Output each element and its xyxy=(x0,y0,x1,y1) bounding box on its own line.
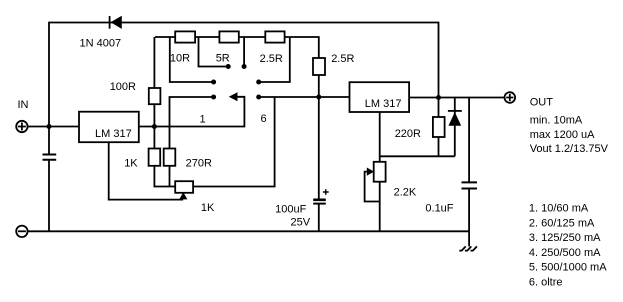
svg-text:IN: IN xyxy=(18,99,29,111)
svg-text:2.5R: 2.5R xyxy=(260,53,283,65)
svg-text:100R: 100R xyxy=(110,81,136,93)
svg-text:10R: 10R xyxy=(170,52,190,64)
svg-text:5. 500/1000 mA: 5. 500/1000 mA xyxy=(529,262,607,274)
svg-text:LM 317: LM 317 xyxy=(365,98,402,110)
svg-text:Vout 1.2/13.75V: Vout 1.2/13.75V xyxy=(530,143,609,155)
svg-text:1K: 1K xyxy=(201,202,215,214)
svg-text:1. 10/60 mA: 1. 10/60 mA xyxy=(529,203,589,215)
svg-text:0.1uF: 0.1uF xyxy=(425,203,453,215)
svg-text:2.2K: 2.2K xyxy=(394,187,417,199)
svg-text:6: 6 xyxy=(261,113,267,125)
svg-text:2. 60/125 mA: 2. 60/125 mA xyxy=(529,217,595,229)
svg-text:25V: 25V xyxy=(291,217,311,229)
svg-text:3. 125/250 mA: 3. 125/250 mA xyxy=(529,232,601,244)
svg-text:220R: 220R xyxy=(395,128,421,140)
svg-text:5R: 5R xyxy=(216,52,230,64)
svg-text:1: 1 xyxy=(200,114,206,126)
svg-text:6. oltre: 6. oltre xyxy=(529,277,563,289)
svg-text:min. 10mA: min. 10mA xyxy=(530,115,583,127)
svg-text:1N 4007: 1N 4007 xyxy=(80,37,122,49)
svg-text:4. 250/500 mA: 4. 250/500 mA xyxy=(529,247,601,259)
svg-text:max 1200 uA: max 1200 uA xyxy=(530,129,595,141)
svg-text:100uF: 100uF xyxy=(275,204,306,216)
svg-text:1K: 1K xyxy=(124,157,138,169)
svg-text:LM 317: LM 317 xyxy=(95,128,132,140)
svg-text:OUT: OUT xyxy=(530,97,554,109)
svg-text:270R: 270R xyxy=(186,157,212,169)
svg-text:2.5R: 2.5R xyxy=(331,53,354,65)
